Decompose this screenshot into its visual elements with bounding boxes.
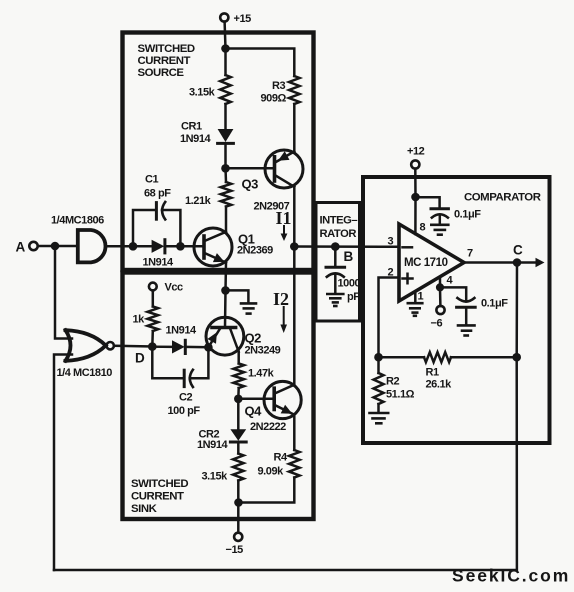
- wire node to R3 top: [226, 49, 295, 77]
- wire node B row: [294, 245, 398, 248]
- svg-text:Q2: Q2: [245, 331, 262, 346]
- wire R4 to bottom node: [239, 478, 295, 503]
- svg-text:1N914: 1N914: [197, 439, 228, 451]
- svg-text:1: 1: [418, 291, 424, 303]
- wire 1k to node D: [151, 331, 154, 347]
- wire +15 to node: [223, 22, 226, 49]
- diode 1N914 (D path): [152, 325, 208, 354]
- wire Vcc to 1k: [152, 290, 155, 306]
- wire NOR output to node D: [114, 345, 152, 348]
- svg-text:SWITCHED: SWITCHED: [131, 478, 188, 490]
- svg-text:SeekIC.com: SeekIC.com: [452, 566, 570, 586]
- wire feedback C to NOR input: [54, 357, 517, 570]
- svg-text:pF: pF: [347, 291, 360, 303]
- svg-text:0.1μF: 0.1μF: [454, 209, 481, 221]
- svg-text:COMPARATOR: COMPARATOR: [464, 192, 541, 204]
- box COMPARATOR: [363, 177, 550, 443]
- svg-text:2N2222: 2N2222: [250, 421, 286, 433]
- resistor 1.21k: [185, 182, 231, 207]
- wire node down to Q2 base: [224, 290, 227, 327]
- wire 1.47k to node: [237, 388, 240, 399]
- wire 3.15k to bottom node: [237, 481, 240, 503]
- svg-text:3.15k: 3.15k: [202, 471, 229, 483]
- box SWITCHED CURRENT SINK: [123, 273, 314, 520]
- svg-text:I2: I2: [273, 289, 289, 309]
- arrow output: [536, 258, 545, 268]
- node Q2 emitter junction: [204, 343, 213, 352]
- wire Q4 emitter to R4: [293, 415, 296, 450]
- wire Q3 base: [226, 167, 275, 170]
- node R1/R2 left: [374, 353, 383, 362]
- svg-text:Vcc: Vcc: [165, 282, 184, 294]
- svg-text:68 pF: 68 pF: [144, 188, 171, 200]
- svg-text:100 pF: 100 pF: [168, 405, 201, 417]
- wire node to Q4 base: [238, 398, 274, 401]
- terminal A: [29, 242, 37, 250]
- svg-text:1k: 1k: [133, 314, 146, 326]
- node A junction: [51, 242, 60, 251]
- node CR1/Q3 base junction: [221, 164, 230, 173]
- capacitor 1000 pF: [326, 247, 361, 303]
- terminal -6: [431, 287, 445, 329]
- op-amp U3 MC1710: [399, 224, 464, 301]
- svg-text:CR1: CR1: [181, 121, 202, 133]
- wire A to junction: [38, 245, 55, 248]
- wire 3.15k to CR1: [224, 104, 227, 129]
- svg-text:2: 2: [388, 267, 394, 279]
- svg-text:1.47k: 1.47k: [248, 368, 275, 380]
- wire +12 down to node: [414, 169, 417, 197]
- ground (near Q2 top): [241, 303, 256, 313]
- wire output pin 7: [464, 248, 537, 263]
- wire feedback to NOR lower input: [54, 355, 72, 571]
- diode 1N914 (A path): [137, 240, 180, 269]
- resistor R1 26.1k: [379, 352, 517, 390]
- capacitor 0.1uF (pin 4): [440, 287, 508, 324]
- ground (R2): [370, 413, 389, 423]
- node top junction: [221, 44, 230, 53]
- svg-text:R1: R1: [426, 367, 439, 379]
- svg-text:SWITCHED: SWITCHED: [138, 43, 195, 55]
- wire Q3 collector down to node B row: [293, 187, 296, 247]
- svg-text:4: 4: [447, 275, 454, 287]
- wire R3 to Q3 emitter: [293, 104, 296, 152]
- svg-text:R3: R3: [272, 80, 285, 92]
- wire pin 2: [379, 267, 400, 358]
- transistor Q4 2N2222: [245, 381, 302, 433]
- wire node to 1.21k: [224, 168, 227, 182]
- svg-text:D: D: [135, 351, 145, 366]
- wire CR2 to 3.15k: [237, 443, 240, 454]
- svg-text:1/4 MC1810: 1/4 MC1810: [57, 367, 113, 379]
- svg-text:1N914: 1N914: [166, 325, 197, 337]
- svg-text:R2: R2: [386, 376, 399, 388]
- wire 1.21k to Q1 collector: [225, 207, 228, 233]
- capacitor C1 68 pF: [133, 174, 180, 247]
- svg-text:1/4MC1806: 1/4MC1806: [51, 215, 104, 227]
- svg-text:+15: +15: [234, 13, 252, 25]
- node output C: [513, 258, 522, 267]
- svg-text:9.09k: 9.09k: [258, 466, 285, 478]
- svg-text:R4: R4: [274, 452, 288, 464]
- wire Q1 emitter down: [224, 263, 227, 291]
- node bottom junction: [234, 498, 243, 507]
- node R1 right: [512, 353, 521, 362]
- resistor R2 51.1 ohm: [374, 357, 415, 411]
- svg-text:RATOR: RATOR: [320, 228, 357, 240]
- svg-text:MC 1710: MC 1710: [404, 257, 448, 269]
- svg-text:26.1k: 26.1k: [426, 379, 453, 391]
- wire pin 8: [414, 197, 417, 234]
- ground pin 1: [408, 291, 424, 316]
- resistor R4 9.09k: [258, 450, 300, 478]
- resistor 3.15k (source): [189, 75, 231, 104]
- wire junction down through boundary to Q4 collector: [293, 247, 296, 385]
- svg-text:−6: −6: [431, 318, 443, 330]
- svg-text:C1: C1: [145, 174, 158, 186]
- svg-text:A: A: [16, 240, 26, 255]
- svg-text:7: 7: [467, 248, 473, 260]
- label I1 current arrow: [276, 208, 292, 241]
- svg-text:2N2369: 2N2369: [237, 245, 273, 257]
- wire to Q1 base: [180, 245, 204, 248]
- svg-text:SINK: SINK: [131, 503, 158, 515]
- svg-text:−15: −15: [226, 544, 244, 556]
- svg-text:INTEG–: INTEG–: [320, 215, 358, 227]
- svg-text:3.15k: 3.15k: [189, 87, 216, 99]
- wire junction to AND gate: [55, 245, 76, 248]
- svg-text:0.1μF: 0.1μF: [481, 298, 508, 310]
- ground (pin4 cap): [458, 325, 475, 335]
- transistor Q3 2N2907: [242, 150, 304, 213]
- ground (pin8 cap): [431, 225, 448, 235]
- wire node down: [224, 49, 227, 76]
- svg-text:Q3: Q3: [242, 177, 259, 192]
- box INTEGRATOR: [316, 203, 360, 322]
- node pin8 supply junction: [411, 193, 420, 202]
- wire CR1 to node: [224, 145, 227, 169]
- terminal Vcc: [149, 282, 183, 294]
- resistor R3 909 ohm: [261, 76, 300, 105]
- svg-text:SOURCE: SOURCE: [138, 67, 185, 79]
- svg-text:2N3249: 2N3249: [245, 345, 281, 357]
- svg-text:+12: +12: [407, 146, 425, 158]
- node I1 junction: [290, 242, 299, 251]
- svg-text:B: B: [344, 249, 354, 264]
- svg-text:909Ω: 909Ω: [261, 93, 287, 105]
- svg-text:1000: 1000: [338, 278, 361, 290]
- wire output down to R1 row: [515, 263, 518, 358]
- wire to ground stub: [226, 290, 249, 302]
- diode CR1 1N914: [180, 121, 233, 146]
- transistor Q2 2N3249: [206, 317, 281, 356]
- svg-text:Q4: Q4: [245, 404, 263, 419]
- node Q4 base junction: [234, 395, 243, 404]
- svg-text:C2: C2: [179, 392, 192, 404]
- pin 4 node: [436, 275, 454, 292]
- box SWITCHED CURRENT SOURCE: [123, 33, 314, 271]
- capacitor 0.1uF (pin 8): [416, 197, 482, 223]
- resistor 1.47k: [233, 364, 274, 389]
- terminal +12: [407, 146, 425, 169]
- resistor 1k: [133, 307, 159, 332]
- nor-gate U2 1/4 MC1810: [57, 330, 114, 379]
- ground (integrator): [327, 294, 343, 306]
- svg-text:C: C: [513, 243, 523, 258]
- svg-text:8: 8: [420, 222, 426, 234]
- node before Q1 base: [176, 242, 185, 251]
- svg-text:3: 3: [388, 236, 394, 248]
- svg-text:1.21k: 1.21k: [185, 195, 212, 207]
- node after AND: [129, 242, 138, 251]
- terminal -15: [226, 533, 244, 556]
- svg-text:51.1Ω: 51.1Ω: [386, 389, 415, 401]
- capacitor C2 100 pF: [152, 347, 208, 417]
- node Q1 emitter / ground junction: [221, 286, 230, 295]
- wire A junction down to NOR input: [55, 246, 72, 339]
- wire AND output into box: [108, 245, 134, 248]
- node D: [148, 342, 157, 351]
- node B: [331, 242, 340, 251]
- svg-text:1N914: 1N914: [143, 257, 174, 269]
- transistor Q1 2N2369: [194, 228, 273, 266]
- svg-text:CURRENT: CURRENT: [131, 491, 184, 503]
- terminal +15: [220, 13, 251, 25]
- and-gate U1 1/4MC1806: [51, 215, 105, 263]
- resistor 3.15k (sink): [202, 454, 244, 483]
- diode CR2 1N914: [197, 429, 246, 452]
- wire node to -15 terminal: [237, 503, 240, 533]
- label I2 current arrow: [273, 289, 289, 333]
- wire Q2 collector to 1.47k: [237, 352, 240, 364]
- svg-text:CURRENT: CURRENT: [138, 55, 191, 67]
- wire node down to CR2: [237, 399, 240, 429]
- svg-text:1N914: 1N914: [180, 133, 211, 145]
